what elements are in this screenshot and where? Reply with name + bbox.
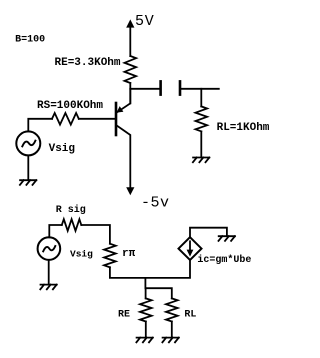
ground (136, 338, 152, 343)
capacitor right plate (179, 81, 182, 94)
wire (27, 155, 29, 180)
svg-text:R sig: R sig (56, 204, 86, 216)
wire (129, 27, 131, 56)
wire (145, 322, 147, 338)
resistor R sig (62, 219, 82, 231)
svg-text:Vsig: Vsig (49, 143, 75, 155)
wire (R sig output to rpi) (81, 225, 110, 244)
svg-text:RS=100KOhm: RS=100KOhm (37, 100, 103, 112)
svg-text:B=100: B=100 (15, 35, 45, 46)
dependent source arrow (189, 241, 191, 250)
ground (40, 285, 56, 290)
wire (200, 131, 202, 157)
ground (219, 236, 235, 241)
svg-text:ic=gm*Ube: ic=gm*Ube (197, 254, 251, 266)
wire (181, 88, 219, 90)
source Vsig sine (22, 141, 35, 147)
svg-text:RL: RL (184, 309, 196, 320)
ground (20, 180, 36, 185)
resistor RL bottom (166, 298, 178, 321)
ground (162, 338, 178, 343)
resistor RE bottom (140, 298, 152, 321)
capacitor left plate (159, 81, 162, 94)
resistor RE (3.3KOhm) (125, 56, 137, 83)
wire bottom bus (110, 260, 190, 278)
svg-text:RE=3.3KOhm: RE=3.3KOhm (55, 57, 121, 69)
resistor RL (1KOhm) (196, 106, 208, 131)
svg-text:5V: 5V (135, 13, 155, 30)
dependent source diamond (179, 237, 202, 260)
svg-text:RE: RE (118, 309, 130, 320)
wire (200, 89, 202, 107)
svg-text:rπ: rπ (122, 248, 136, 260)
wire (49, 225, 62, 237)
svg-text:RL=1KOhm: RL=1KOhm (217, 122, 270, 134)
source Vsig2 circle (38, 237, 61, 260)
transistor Q1 base bar (115, 103, 118, 135)
wire (130, 88, 159, 90)
resistor RS (100KOhm) (52, 113, 79, 125)
transistor Q1 emitter arrow (117, 106, 124, 113)
source Vsig2 sine (43, 246, 55, 251)
wire base lead (79, 118, 115, 120)
node +5V supply arrow (126, 19, 134, 27)
resistor rpi (104, 244, 116, 268)
transistor Q1 collector (117, 126, 130, 188)
ground (193, 158, 209, 163)
node -5V supply arrow (126, 187, 134, 195)
svg-text:Vsig: Vsig (70, 248, 93, 259)
wire (171, 322, 173, 338)
wire (28, 119, 52, 132)
svg-text:-5v: -5v (141, 195, 170, 212)
source Vsig circle (16, 131, 40, 155)
wire stub to RE/RL (145, 278, 171, 299)
wire (48, 260, 50, 285)
wire (129, 83, 131, 103)
transistor Q1 emitter (117, 89, 130, 112)
wire diamond top to ground (190, 228, 227, 238)
